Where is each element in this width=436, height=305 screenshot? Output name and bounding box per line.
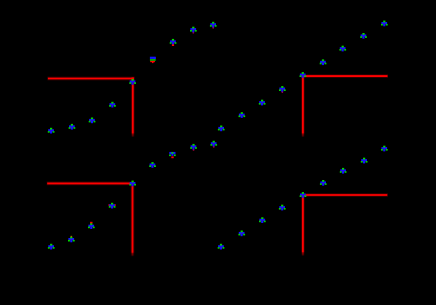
data point S2 p8 (marker cluster) [190,144,197,151]
data point S1 p4 (marker cluster) [109,102,116,108]
data point S4 p1 (marker cluster) [218,244,225,250]
data point S4 p2 (marker cluster) [238,231,245,237]
data point S1 p9 (marker cluster) [210,22,217,29]
data point S3 p2 (marker cluster) [239,112,246,118]
data point S2 p3 (marker cluster) [88,222,95,229]
data point S1 p2 (marker cluster) [69,124,76,130]
red step corner, bottom-right panel: vertical segment [0,0,1,1]
red step corner, bottom-left panel: horizontal segment [47,181,134,185]
data point S3 p9 (marker cluster) [381,21,388,27]
data point S4 p8 (marker cluster) [361,158,368,164]
data point S2 p4 (marker cluster) [108,203,115,209]
data point S4 p9 (marker cluster) [381,146,388,152]
data point S3 p5 (marker cluster) [300,72,307,78]
data point S4 p5 (marker cluster) [300,192,307,198]
data point S3 p1 (marker cluster) [218,126,225,132]
data point S3 p8 (marker cluster) [360,33,367,39]
data point S2 p1 (marker cluster) [48,244,55,250]
data point S3 p7 (marker cluster) [339,46,346,52]
data point S3 p6 (marker cluster) [320,59,327,65]
data point S4 p4 (marker cluster) [279,205,286,211]
data point S2 p9 (marker cluster) [210,141,217,148]
data point S3 p3 (marker cluster) [259,100,266,106]
data point S2 p5 (marker cluster) [129,181,136,187]
data point S3 p4 (marker cluster) [279,86,286,93]
red step corner, top-right panel: horizontal segment [301,74,388,78]
data point S2 p6 (marker cluster) [149,162,156,168]
data point S1 p8 (marker cluster) [190,27,197,34]
red step corner, top-left panel: vertical segment [0,0,1,1]
data point S1 p6 (marker cluster) [150,57,156,63]
red step corner, bottom-right panel: horizontal segment [302,193,388,197]
data point S1 p5 (marker cluster) [129,79,136,85]
data point S1 p1 (marker cluster) [48,128,55,134]
data point S4 p7 (marker cluster) [340,168,347,174]
data point S1 p3 (marker cluster) [89,118,96,124]
data point S4 p6 (marker cluster) [320,180,327,186]
red step corner, bottom-left panel: vertical segment [0,0,1,1]
data point S2 p7 (marker cluster) [169,152,176,158]
red step corner, top-left panel: horizontal segment [47,77,134,81]
data point S4 p3 (marker cluster) [259,217,266,223]
red step corner, top-right panel: vertical segment [0,0,1,1]
data point S1 p7 (marker cluster) [170,39,177,46]
data point S2 p2 (marker cluster) [68,236,75,243]
